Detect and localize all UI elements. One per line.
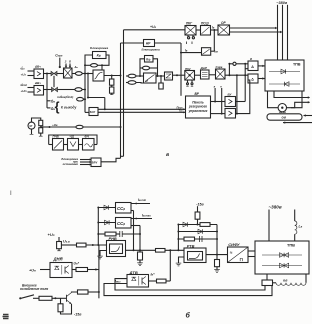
svg-text:+Uя: +Uя — [29, 268, 36, 272]
svg-text:+Uз: +Uз — [21, 72, 27, 76]
svg-text:Iв.min: Iв.min — [138, 198, 147, 202]
svg-text:а: а — [166, 152, 169, 158]
svg-text:ΔВч: ΔВч — [34, 64, 41, 68]
svg-text:управления: управления — [188, 109, 208, 113]
svg-text:остановке: остановке — [63, 162, 79, 166]
svg-text:БРУ: БРУ — [92, 160, 98, 164]
svg-text:ПКГ: ПКГ — [186, 22, 193, 26]
svg-text:+Uп: +Uп — [48, 232, 55, 237]
svg-text:б̃: б̃ — [69, 59, 71, 63]
svg-text:ЗГ: ЗГ — [29, 124, 33, 128]
svg-text:БЗГ: БЗГ — [90, 110, 96, 114]
svg-text:+Uт: +Uт — [21, 89, 28, 93]
svg-text:Iвиз: Iвиз — [115, 280, 121, 284]
svg-text:в: в — [250, 57, 252, 61]
svg-text:б: б — [186, 312, 191, 320]
svg-text:ω̃тд: ω̃тд — [21, 83, 28, 87]
svg-text:+Uв: +Uв — [150, 25, 156, 29]
svg-text:{: { — [55, 100, 60, 114]
svg-text:ПК2: ПК2 — [185, 67, 191, 71]
svg-text:ПСШ: ПСШ — [201, 22, 210, 26]
svg-text:ДНЯ: ДНЯ — [53, 257, 64, 262]
svg-text:ослабление поля: ослабление поля — [20, 287, 48, 291]
svg-text:Lв: Lв — [299, 225, 303, 229]
svg-text:Uз.в: Uз.в — [63, 239, 70, 243]
svg-text:-15в: -15в — [74, 313, 82, 317]
svg-text:ССβ: ССβ — [117, 221, 125, 226]
svg-text:Iв*: Iв* — [151, 272, 156, 276]
svg-text:ТПВ: ТПВ — [287, 243, 295, 248]
svg-text:ДмР: ДмР — [200, 66, 208, 70]
svg-text:-15в: -15в — [196, 202, 204, 206]
svg-text:2: 2 — [64, 59, 67, 63]
svg-text:~380в: ~380в — [269, 205, 282, 210]
svg-text:тΩ̃ма(Ω̃тд): тΩ̃ма(Ω̃тд) — [57, 95, 73, 99]
svg-text:ов: ов — [282, 116, 287, 120]
svg-text:АР: АР — [146, 42, 151, 46]
svg-text:~380в: ~380в — [276, 1, 288, 5]
svg-text:СИФУ: СИФУ — [228, 242, 240, 247]
svg-text:ТПВ: ТПВ — [293, 63, 301, 67]
svg-text:Uя*: Uя* — [74, 262, 80, 266]
svg-text:Блокировка: Блокировка — [142, 48, 160, 52]
svg-text:⊓: ⊓ — [240, 257, 244, 262]
svg-text:ССβ: ССβ — [117, 206, 125, 211]
svg-text:ΔВч: ΔВч — [34, 81, 41, 85]
svg-text:Смрп: Смрп — [55, 54, 63, 58]
svg-text:Δ: Δ — [251, 78, 254, 82]
svg-text:Смрв: Смрв — [216, 65, 223, 69]
svg-text:К выходу: К выходу — [61, 105, 77, 109]
svg-text:Блокировка: Блокировка — [90, 46, 108, 50]
svg-text:+Uв: +Uв — [52, 123, 58, 127]
svg-text:Δ: Δ — [251, 65, 254, 69]
svg-text:Iв.max: Iв.max — [142, 213, 151, 217]
